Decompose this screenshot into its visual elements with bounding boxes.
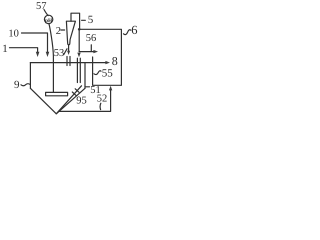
leader 6 [124, 30, 131, 35]
tank 9 right wall [84, 63, 86, 89]
agitator paddle [46, 92, 68, 95]
svg-text:53: 53 [54, 48, 65, 59]
tank top edge / stream arrow 8 [30, 62, 105, 64]
label 8 [112, 54, 118, 68]
tank cone right [56, 88, 85, 114]
leader 5 [82, 19, 86, 21]
tank cone left [30, 88, 56, 114]
label 51 [90, 85, 101, 96]
label 53 [54, 48, 65, 59]
tank dip tube [77, 58, 80, 82]
cyclone underflow pipe 53 [68, 45, 70, 51]
label 57 [36, 1, 47, 12]
drain pipe from tank apex [57, 86, 82, 113]
label 6 [131, 23, 137, 37]
underflow dip tube [67, 57, 70, 66]
leader 57 [44, 10, 48, 16]
stream arrow 56 [79, 51, 94, 53]
label 9 [14, 79, 20, 91]
svg-text:52: 52 [97, 93, 108, 104]
leader 52 [99, 103, 102, 109]
label 55 [102, 68, 114, 80]
leader 53 [64, 49, 67, 55]
pH electrode / agitator shaft [49, 24, 54, 93]
label 56 [86, 33, 97, 44]
label 2 [56, 26, 61, 37]
pH meter U57 [44, 15, 52, 23]
svg-text:8: 8 [112, 54, 118, 68]
leader 56 [90, 45, 92, 51]
leader 51 [85, 86, 90, 88]
leader 9 [21, 84, 30, 86]
label 52 [97, 93, 108, 104]
drain line 52 [60, 90, 111, 111]
label 5 [88, 14, 94, 26]
cyclone vortex finder box [71, 13, 80, 29]
valve 51 ticks [72, 89, 79, 96]
leader 55 [94, 71, 101, 75]
pipe 55 [93, 57, 122, 85]
svg-text:6: 6 [131, 23, 137, 37]
svg-text:95: 95 [76, 95, 87, 106]
label 10 [8, 29, 19, 40]
tank 9 left wall [29, 63, 31, 89]
svg-text:10: 10 [8, 29, 19, 40]
svg-text:56: 56 [86, 33, 97, 44]
feed line 1 [10, 48, 38, 52]
junction node [78, 28, 81, 31]
overflow pipe to 6 [79, 29, 121, 85]
cyclone cone 2 [66, 21, 75, 45]
label 95 [76, 95, 87, 106]
pipe from junction into tank [78, 29, 80, 51]
label 1 [2, 43, 8, 55]
feed line 10 [22, 33, 48, 52]
svg-text:2: 2 [56, 26, 61, 37]
svg-text:pH: pH [45, 18, 53, 24]
svg-text:5: 5 [88, 14, 94, 26]
svg-text:9: 9 [14, 79, 20, 91]
svg-text:1: 1 [2, 43, 8, 55]
leader 2 [61, 29, 65, 31]
svg-text:55: 55 [102, 68, 114, 80]
